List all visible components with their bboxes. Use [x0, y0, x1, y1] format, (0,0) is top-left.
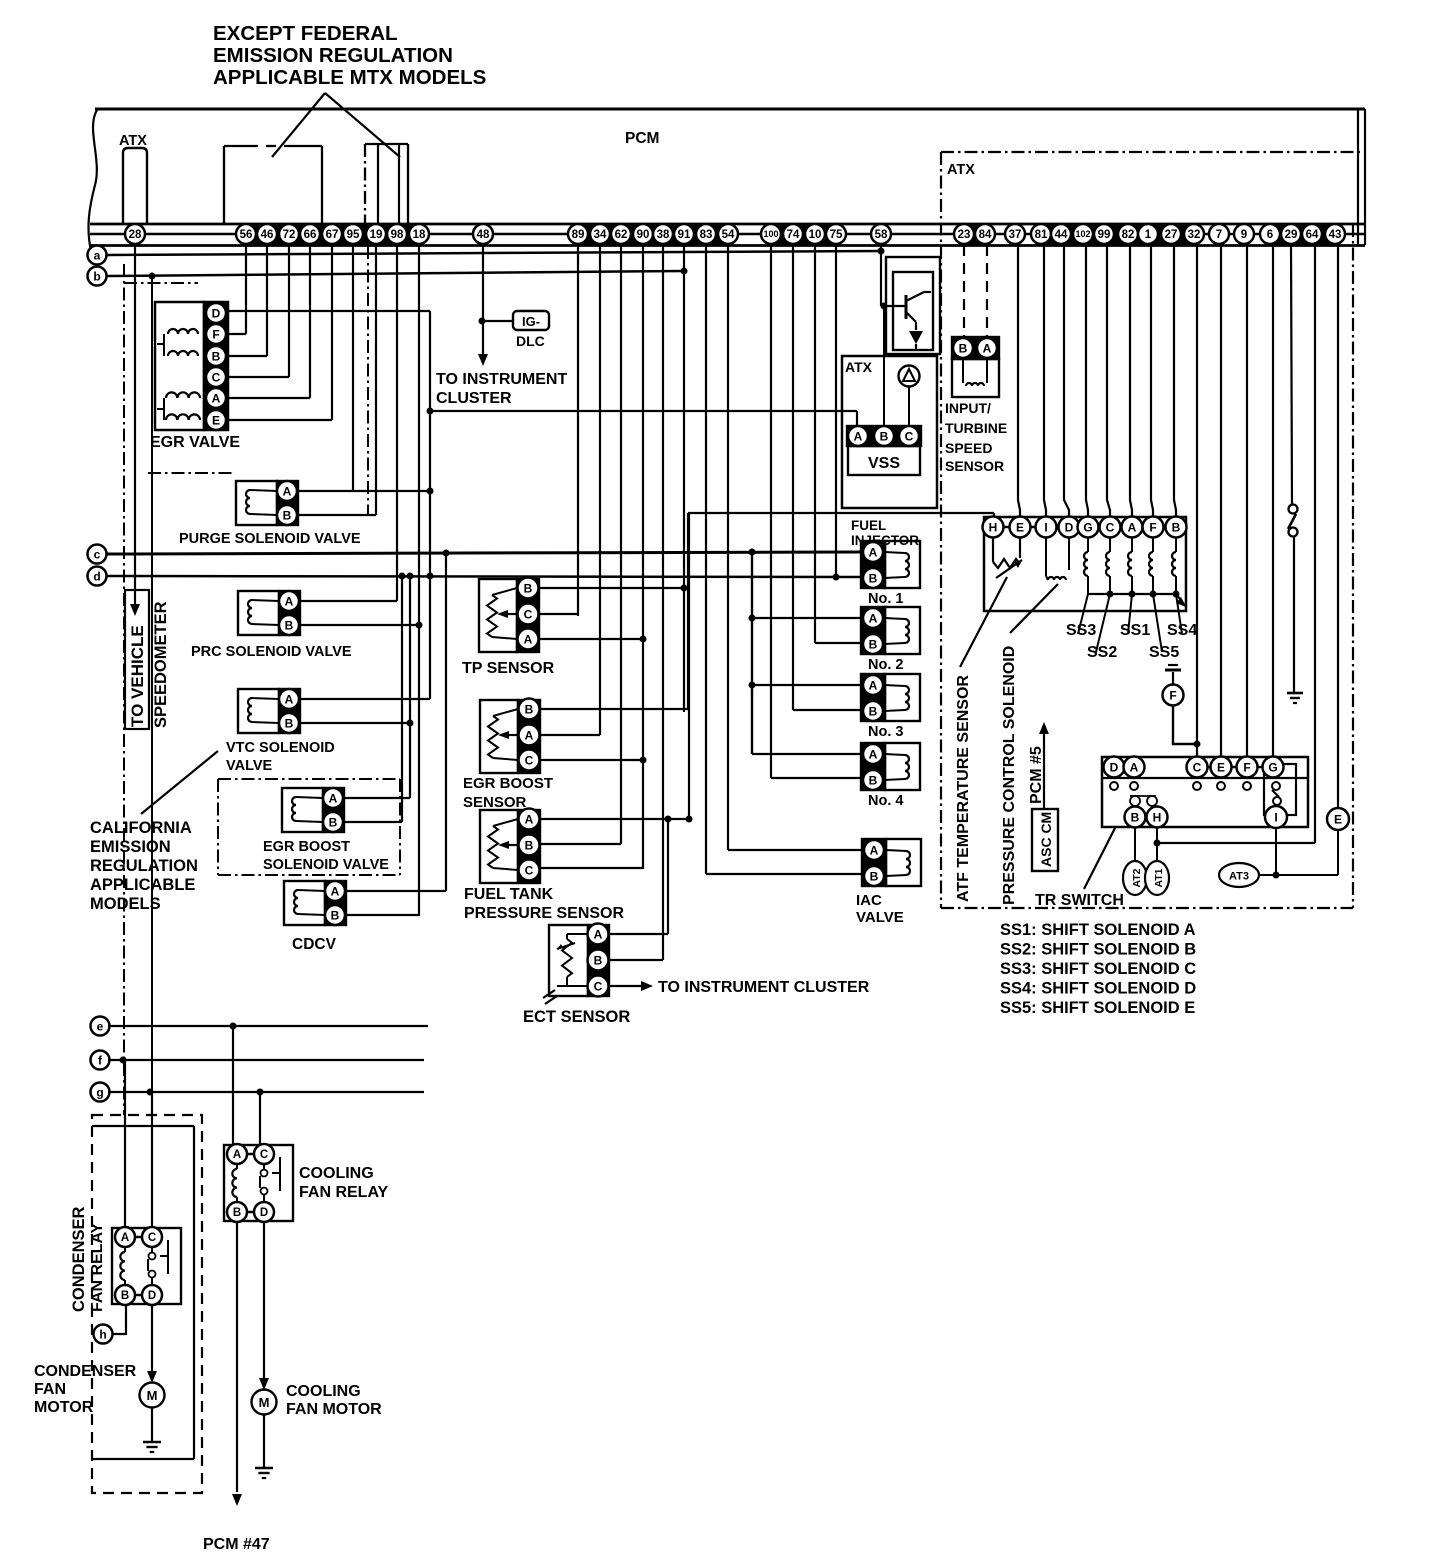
- wire pin38 trunk: [662, 245, 664, 960]
- shift solenoid coil 2: [1106, 538, 1110, 594]
- label IAC VALVE: [856, 892, 904, 926]
- label CALIFORNIA EMISSION REGULATION APPLICABLE MODELS: [90, 819, 198, 913]
- svg-text:B: B: [329, 815, 338, 829]
- svg-text:TO VEHICLE: TO VEHICLE: [128, 625, 147, 727]
- svg-text:B: B: [524, 581, 533, 595]
- svg-text:SS5: SS5: [1149, 644, 1179, 661]
- svg-text:A: A: [869, 611, 878, 625]
- TR switch pin F: [1237, 757, 1258, 778]
- svg-text:6: 6: [1267, 229, 1273, 241]
- VSS pin C: [899, 426, 919, 446]
- wire EGR-boost-valve A riser: [409, 576, 411, 798]
- wire injector No.4 A: [752, 753, 861, 755]
- solenoid block pin E: [1010, 517, 1031, 538]
- wire TP B to pin91 trunk: [539, 587, 684, 589]
- node dot PRC B at pin18 trunk: [416, 622, 423, 629]
- svg-text:SS1: SS1: [1120, 622, 1150, 639]
- PCM pin 62: [611, 224, 631, 244]
- off-page node b: [88, 267, 107, 286]
- svg-text:AT3: AT3: [1229, 871, 1249, 883]
- wire speed symbol to VSS C: [908, 386, 910, 427]
- wire pin102 to block G: [1086, 245, 1088, 516]
- svg-text:F: F: [212, 327, 219, 341]
- wire H junction to pin64: [1157, 842, 1315, 844]
- PCM pin 95: [343, 224, 363, 244]
- svg-text:ASC CM: ASC CM: [1038, 812, 1054, 867]
- svg-text:D: D: [1110, 760, 1119, 774]
- svg-text:ATX: ATX: [845, 359, 873, 375]
- svg-text:E: E: [1016, 520, 1024, 534]
- wire EGR-boost-valve B corner: [344, 821, 402, 823]
- wire injector common riser: [751, 552, 753, 754]
- svg-text:INPUT/: INPUT/: [945, 400, 991, 416]
- TR switch inner chord: [1102, 777, 1308, 779]
- pointer line left from note to MTX box: [272, 93, 325, 157]
- svg-text:44: 44: [1055, 229, 1068, 241]
- svg-text:A: A: [212, 391, 221, 405]
- EGR valve pin B: [206, 346, 226, 366]
- PCM pin 19: [366, 224, 386, 244]
- wire pin37 to block E: [1018, 245, 1020, 516]
- wire injector No.4 B: [771, 777, 861, 779]
- svg-text:ATX: ATX: [947, 162, 975, 178]
- svg-text:29: 29: [1285, 229, 1298, 241]
- EGR valve body box: [155, 302, 204, 430]
- svg-text:REGULATION: REGULATION: [90, 857, 198, 875]
- svg-text:83: 83: [700, 229, 713, 241]
- svg-text:23: 23: [958, 229, 971, 241]
- input/turbine sensor body: [952, 359, 999, 397]
- wire trunk x430 (EGR D / instrument line): [429, 311, 431, 699]
- wire pin7 to TR E: [1220, 245, 1222, 757]
- svg-text:H: H: [989, 520, 998, 534]
- svg-text:D: D: [212, 306, 221, 320]
- wire EGR A to pin66: [228, 397, 310, 399]
- wire pin34 trunk: [599, 245, 601, 735]
- svg-text:A: A: [233, 1149, 241, 1161]
- svg-text:PCM #5: PCM #5: [1028, 746, 1045, 804]
- wire pin91 trunk: [683, 245, 685, 712]
- wire E to AT3 line: [1337, 830, 1339, 875]
- svg-text:B: B: [1172, 520, 1181, 534]
- MTX boundary dash-dot vertical x368: [367, 246, 369, 515]
- PCM pin 7: [1209, 224, 1229, 244]
- AT2 oval: [1123, 861, 1147, 895]
- svg-text:I: I: [1044, 520, 1047, 534]
- svg-text:E: E: [212, 413, 220, 427]
- svg-text:G: G: [1083, 520, 1092, 534]
- svg-text:C: C: [524, 607, 533, 621]
- wire fuel-tank A line: [540, 818, 689, 820]
- wire trunk x152 b-line to g-line: [151, 276, 153, 1092]
- arrow condenser motor: [147, 1371, 157, 1383]
- svg-text:APPLICABLE: APPLICABLE: [90, 876, 195, 894]
- wire CDCV A riser: [445, 553, 447, 891]
- off-page node F: [1163, 685, 1184, 706]
- wire F to TR trunk: [1173, 706, 1197, 744]
- solenoid block pin ticks: [1004, 526, 1166, 529]
- wire H feed horizontal: [688, 512, 994, 514]
- wire ASC CM arrow line: [1043, 734, 1045, 809]
- svg-text:EGR BOOST: EGR BOOST: [263, 839, 350, 855]
- TR contact: [1243, 782, 1251, 790]
- arrow to vehicle speedometer: [130, 604, 140, 616]
- PCM pin 29: [1281, 224, 1301, 244]
- wire pin83 trunk: [705, 245, 707, 874]
- ATX region dash-dot box (right): [941, 152, 1360, 908]
- transistor outer box: [886, 257, 940, 354]
- svg-text:EMISSION: EMISSION: [90, 838, 171, 856]
- PCM connector band: [1260, 224, 1345, 245]
- svg-text:H: H: [1153, 810, 1162, 824]
- PCM bus lower rail: [90, 244, 1365, 247]
- wire EGR-boost-sensor C to pin90 trunk: [540, 759, 643, 761]
- wire cooling C to g: [259, 1092, 261, 1144]
- arrow PCM 47: [232, 1494, 242, 1506]
- VTC solenoid valve: [238, 689, 300, 733]
- svg-text:F: F: [1169, 688, 1176, 702]
- PCM pin 27: [1161, 224, 1181, 244]
- MTX boundary dash-dot stub 2: [148, 472, 232, 474]
- wire cooling A to e: [232, 1026, 234, 1144]
- svg-text:D: D: [260, 1207, 268, 1219]
- svg-text:e: e: [97, 1019, 104, 1033]
- svg-text:A: A: [331, 884, 340, 898]
- wire pin84 dashed: [986, 245, 988, 337]
- svg-text:A: A: [854, 429, 863, 443]
- svg-text:SS3: SHIFT SOLENOID C: SS3: SHIFT SOLENOID C: [1000, 960, 1196, 978]
- svg-text:SS2: SHIFT SOLENOID B: SS2: SHIFT SOLENOID B: [1000, 941, 1196, 959]
- node dot d-line trunk430: [427, 573, 434, 580]
- PCM pin 48: [473, 224, 493, 244]
- wire EGR B to pin46: [228, 355, 267, 357]
- transistor inner box: [893, 272, 933, 350]
- svg-text:FAN: FAN: [34, 1381, 66, 1398]
- wire EGR F to pin56: [228, 333, 246, 335]
- pointer line right from note to MTX box: [325, 93, 400, 157]
- SS label pointer 2: [1096, 594, 1110, 652]
- EGR valve internal wires: [157, 334, 164, 420]
- svg-text:A: A: [285, 692, 294, 706]
- ground (cooling motor): [255, 1468, 273, 1478]
- svg-text:B: B: [869, 704, 878, 718]
- wire purge B to pin19: [298, 514, 376, 516]
- wire TP A to pin90 trunk: [539, 638, 643, 640]
- node dot ECT A junction: [665, 816, 672, 823]
- SS label pointer 1: [1078, 594, 1088, 634]
- svg-text:IAC: IAC: [856, 892, 882, 909]
- wire pin64 trunk: [1314, 245, 1316, 843]
- TR pin ticks: [1208, 766, 1263, 769]
- wire pin48 trunk: [482, 245, 484, 354]
- svg-text:A: A: [285, 594, 294, 608]
- svg-text:B: B: [233, 1207, 241, 1219]
- node dot AT3 line: [1273, 872, 1280, 879]
- PCM connector band: [1031, 224, 1204, 245]
- svg-text:B: B: [212, 349, 221, 363]
- TR label pointer: [1084, 828, 1115, 889]
- wire pin82 to block A: [1130, 245, 1132, 516]
- svg-text:A: A: [283, 484, 292, 498]
- svg-text:B: B: [869, 571, 878, 585]
- node dot g-line cooling relay C: [257, 1089, 264, 1096]
- svg-text:PURGE SOLENOID VALVE: PURGE SOLENOID VALVE: [179, 531, 361, 547]
- svg-text:B: B: [285, 618, 294, 632]
- PCM pin 28: [125, 224, 145, 244]
- TP sensor: [479, 578, 539, 653]
- svg-text:SENSOR: SENSOR: [463, 794, 527, 811]
- node dot d-line VTC branch: [407, 573, 414, 580]
- wire ECT C to arrow: [609, 985, 641, 987]
- svg-text:PRESSURE CONTROL SOLENOID: PRESSURE CONTROL SOLENOID: [1001, 646, 1018, 905]
- svg-text:M: M: [147, 1388, 158, 1403]
- node dot TR H line: [1154, 840, 1161, 847]
- PCM pin 64: [1302, 224, 1322, 244]
- svg-text:FAN MOTOR: FAN MOTOR: [286, 1401, 382, 1418]
- wire pin1 to block F: [1151, 245, 1153, 516]
- wire EGR-boost-valve B riser: [401, 576, 403, 822]
- wire pin54 trunk: [727, 245, 729, 850]
- off-page node g: [91, 1083, 110, 1102]
- svg-text:a: a: [94, 248, 101, 262]
- ATF label pointer: [960, 577, 1007, 667]
- node dot g-line condenser relay C: [147, 1089, 154, 1096]
- EGR boost sensor: [480, 699, 540, 774]
- node dot trunk430 instrument line: [427, 408, 434, 415]
- svg-text:SPEEDOMETER: SPEEDOMETER: [152, 601, 170, 728]
- label FUEL TANK PRESSURE SENSOR: [464, 886, 624, 922]
- condenser fan motor M1: [140, 1383, 165, 1408]
- label CONDENSER FAN MOTOR: [34, 1363, 137, 1416]
- svg-text:A: A: [594, 927, 603, 941]
- VSS label box: [848, 446, 920, 475]
- wire transistor emitter to VSS B: [883, 306, 885, 427]
- svg-text:99: 99: [1098, 229, 1111, 241]
- svg-text:A: A: [525, 812, 534, 826]
- svg-text:A: A: [329, 791, 338, 805]
- PCM pin 67: [322, 224, 342, 244]
- wire injector No.3 B: [793, 709, 861, 711]
- node dot TP B junction: [681, 585, 688, 592]
- node dot pin58 base junction: [881, 303, 888, 310]
- label TO INSTRUMENT CLUSTER: [436, 371, 567, 407]
- svg-text:28: 28: [129, 229, 142, 241]
- wire H feed drop: [993, 513, 995, 517]
- wire pin72 trunk: [288, 245, 290, 377]
- TR switch box: [1102, 757, 1308, 827]
- wire instrument-cluster line: [430, 410, 857, 412]
- node dot trunk x152 at b: [149, 273, 156, 280]
- wire pin46 trunk: [266, 245, 268, 356]
- PCM pin 72: [279, 224, 299, 244]
- input/turbine sensor connector: [952, 337, 999, 359]
- label VTC SOLENOID VALVE: [226, 740, 335, 774]
- pressure control solenoid element: [1046, 538, 1069, 580]
- svg-text:A: A: [524, 632, 533, 646]
- svg-text:82: 82: [1122, 229, 1135, 241]
- svg-text:TURBINE: TURBINE: [945, 420, 1007, 436]
- wire injector No.2 A: [752, 617, 861, 619]
- node dot c-line injector branch: [749, 549, 756, 556]
- svg-text:CONDENSER: CONDENSER: [34, 1363, 137, 1380]
- wire pin74 trunk: [792, 245, 794, 710]
- wire pin90 trunk: [642, 245, 644, 869]
- wire condenser D to motor: [151, 1305, 153, 1377]
- ground (F branch): [1165, 665, 1181, 684]
- svg-text:B: B: [525, 702, 534, 716]
- PCM pin 9: [1234, 224, 1254, 244]
- shift solenoid coil 4: [1149, 538, 1153, 594]
- svg-text:B: B: [285, 716, 294, 730]
- label CONDENSER FAN RELAY (rotated): [70, 1206, 106, 1312]
- svg-text:7: 7: [1216, 229, 1222, 241]
- wire pin29 to switch: [1291, 245, 1292, 504]
- svg-text:B: B: [869, 637, 878, 651]
- label INPUT/ TURBINE SPEED SENSOR: [945, 400, 1007, 474]
- pressure label pointer: [1010, 584, 1058, 633]
- svg-text:100: 100: [763, 229, 778, 239]
- PCM connector band: [568, 224, 738, 245]
- svg-text:VALVE: VALVE: [856, 909, 904, 926]
- label PURGE SOLENOID VALVE: [179, 531, 361, 547]
- label TP SENSOR: [462, 660, 555, 677]
- EGR valve pin C: [206, 367, 226, 387]
- PCM pin 99: [1094, 224, 1114, 244]
- PCM connector band: [761, 224, 846, 245]
- MTX boundary dash-dot stub 1: [124, 282, 198, 284]
- svg-text:I: I: [1274, 810, 1277, 824]
- shift solenoid coil 1: [1084, 538, 1088, 594]
- svg-text:72: 72: [283, 229, 296, 241]
- TR switch inner right box: [1264, 764, 1296, 815]
- wire EGR-boost-sensor B riser: [687, 513, 689, 709]
- svg-text:SPEED: SPEED: [945, 440, 992, 456]
- wire injector No.3 A: [752, 684, 861, 686]
- svg-text:84: 84: [979, 229, 992, 241]
- wire cooling motor to ground: [263, 1415, 265, 1467]
- TR contact: [1110, 782, 1118, 790]
- svg-text:66: 66: [304, 229, 317, 241]
- svg-text:AT2: AT2: [1131, 868, 1143, 887]
- svg-text:VALVE: VALVE: [226, 758, 273, 774]
- svg-text:G: G: [1268, 760, 1277, 774]
- ATX boundary dash-dot left vertical: [123, 264, 125, 1115]
- PCM connector band: [954, 224, 995, 245]
- label COOLING FAN MOTOR: [286, 1383, 382, 1418]
- svg-text:SS3: SS3: [1066, 622, 1096, 639]
- wire VSS A drop: [856, 411, 858, 427]
- solenoid common arrow: [1176, 594, 1186, 607]
- node dot VTC B junction: [407, 720, 414, 727]
- svg-text:TO INSTRUMENT: TO INSTRUMENT: [436, 371, 567, 388]
- svg-text:98: 98: [391, 229, 404, 241]
- svg-text:91: 91: [678, 229, 691, 241]
- EGR valve coil 3: [166, 392, 200, 398]
- TR switch pin E: [1211, 757, 1232, 778]
- wire ECT A corner: [609, 933, 668, 935]
- wire pin19 trunk: [375, 245, 377, 515]
- svg-text:A: A: [1130, 760, 1139, 774]
- wire pin98 trunk: [396, 245, 398, 601]
- PCM pin 82: [1118, 224, 1138, 244]
- PCM pin 34: [590, 224, 610, 244]
- svg-text:VSS: VSS: [868, 455, 900, 472]
- ASC CM box: [1032, 809, 1058, 871]
- svg-text:D: D: [148, 1290, 156, 1302]
- wire pin9 to TR F: [1246, 245, 1248, 757]
- arrow cooling motor: [259, 1378, 269, 1390]
- svg-text:F: F: [1149, 520, 1156, 534]
- svg-text:E: E: [1217, 760, 1225, 774]
- ground (switch): [1287, 693, 1303, 703]
- wire CDCV A corner: [346, 890, 446, 892]
- svg-text:No. 4: No. 4: [868, 793, 903, 809]
- svg-text:EMISSION REGULATION: EMISSION REGULATION: [213, 44, 453, 67]
- svg-text:PCM #47: PCM #47: [203, 1536, 270, 1553]
- PCM pin 10: [805, 224, 825, 244]
- wire EGR D to trunk430: [228, 310, 430, 312]
- switch upper contact: [1289, 505, 1298, 514]
- TR contact: [1217, 782, 1225, 790]
- wire condenser A to f: [124, 1060, 126, 1227]
- PCM module torn left edge: [88, 110, 97, 251]
- shift solenoid coil 5: [1172, 538, 1176, 594]
- wire EGR-boost-valve A corner: [344, 797, 410, 799]
- svg-text:FUEL TANK: FUEL TANK: [464, 886, 554, 903]
- PCM pin 6: [1260, 224, 1280, 244]
- svg-text:F: F: [1243, 760, 1250, 774]
- svg-text:90: 90: [637, 229, 650, 241]
- off-page node d: [88, 567, 107, 586]
- svg-text:IG-: IG-: [522, 314, 540, 329]
- California pointer line: [141, 751, 218, 814]
- svg-text:C: C: [1193, 760, 1202, 774]
- TR switch pin A: [1124, 757, 1145, 778]
- PCM pin 75: [826, 224, 846, 244]
- svg-text:9: 9: [1241, 229, 1247, 241]
- fuel injector No.3: [861, 674, 920, 721]
- wire H feed riser: [688, 513, 690, 819]
- svg-text:PRC SOLENOID VALVE: PRC SOLENOID VALVE: [191, 644, 352, 660]
- wire condenser motor to ground: [151, 1408, 153, 1441]
- PCM pin 91: [674, 224, 694, 244]
- PCM pin 23: [954, 224, 974, 244]
- PCM bus right end cap: [1357, 109, 1359, 245]
- off-page node f: [91, 1051, 110, 1070]
- PCM pin 74: [783, 224, 803, 244]
- svg-text:A: A: [1128, 520, 1137, 534]
- svg-text:FAN RELAY: FAN RELAY: [299, 1184, 389, 1201]
- wire ECT A riser: [667, 819, 669, 934]
- svg-text:46: 46: [261, 229, 274, 241]
- EGR valve pin A: [206, 388, 226, 408]
- wire pin81 to block I: [1044, 245, 1046, 516]
- SS label pointer 3: [1128, 594, 1132, 634]
- fuel injector No.4: [861, 743, 920, 790]
- wire IAC A: [728, 849, 862, 851]
- svg-text:32: 32: [1188, 229, 1201, 241]
- arrow ECT C to instrument cluster: [641, 981, 653, 991]
- svg-text:AT1: AT1: [1153, 868, 1165, 887]
- svg-text:54: 54: [722, 229, 735, 241]
- node dot injector common No.3: [749, 682, 756, 689]
- wire pin75 trunk: [835, 245, 837, 577]
- node dot d-line pin75 wire: [833, 574, 840, 581]
- svg-text:B: B: [1131, 810, 1140, 824]
- node dot a-line to pin58 wire: [878, 248, 885, 255]
- svg-text:No. 3: No. 3: [868, 724, 903, 740]
- svg-text:No. 1: No. 1: [868, 591, 903, 607]
